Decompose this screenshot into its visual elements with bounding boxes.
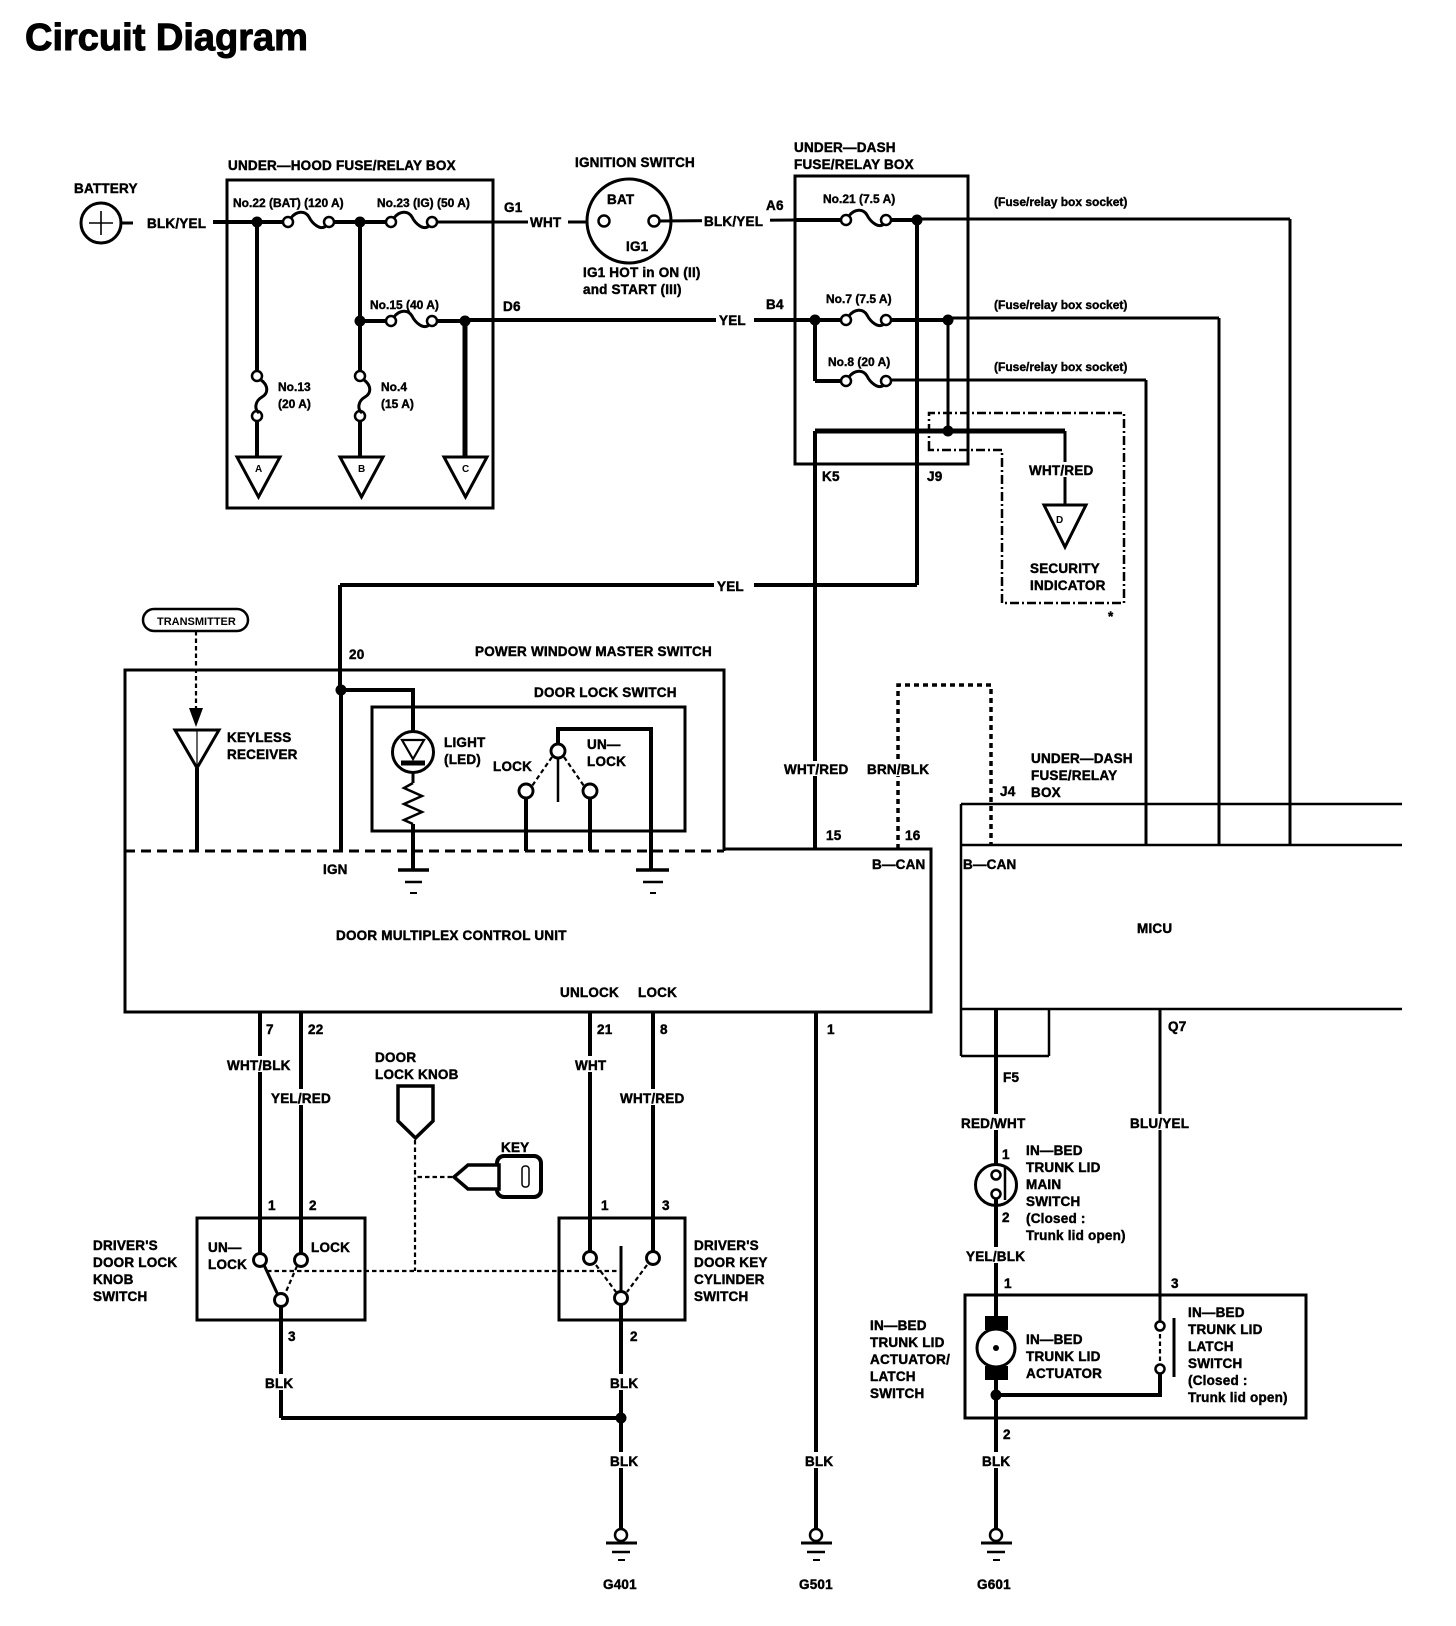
svg-text:1: 1: [1002, 1147, 1010, 1162]
note IG1 HOT: [583, 265, 701, 297]
wire K5 header: [815, 431, 1065, 484]
contact LOCK: [493, 757, 552, 851]
dashed mechanical link: [267, 1270, 618, 1272]
in-bed trunk lid actuator/latch switch box: [870, 1295, 1306, 1418]
svg-text:B—CAN: B—CAN: [872, 857, 926, 872]
svg-text:No.7 (7.5 A): No.7 (7.5 A): [826, 292, 892, 306]
under-hood fuse/relay box: [227, 180, 493, 508]
connector D security indicator: [1030, 505, 1114, 624]
svg-text:IGNITION SWITCH: IGNITION SWITCH: [575, 155, 695, 170]
svg-text:SWITCH: SWITCH: [1188, 1356, 1242, 1371]
svg-text:ACTUATOR: ACTUATOR: [1026, 1366, 1102, 1381]
svg-text:15: 15: [826, 828, 842, 843]
svg-text:LATCH: LATCH: [870, 1369, 916, 1384]
node bus B: [355, 217, 366, 228]
wire to LED: [341, 690, 413, 742]
door lock switch common contact: [551, 729, 651, 869]
svg-text:D: D: [1056, 515, 1063, 526]
connector B: [340, 421, 383, 497]
svg-text:No.13: No.13: [278, 380, 311, 394]
label in-bed trunk lid main switch: [1026, 1143, 1126, 1243]
svg-text:POWER WINDOW MASTER SWITCH: POWER WINDOW MASTER SWITCH: [475, 644, 712, 659]
svg-text:IN—BED: IN—BED: [870, 1318, 927, 1333]
pin 21 wire WHT: [573, 1012, 613, 1252]
svg-text:TRUNK LID: TRUNK LID: [1026, 1349, 1101, 1364]
svg-text:TRUNK LID: TRUNK LID: [870, 1335, 945, 1350]
svg-text:UNLOCK: UNLOCK: [560, 985, 619, 1000]
knob switch pin 3 BLK: [263, 1306, 296, 1418]
svg-text:MICU: MICU: [1137, 921, 1172, 936]
pin 1 wire BLK to G501: [803, 1012, 835, 1529]
svg-text:BLK: BLK: [610, 1454, 638, 1469]
svg-text:SWITCH: SWITCH: [694, 1289, 748, 1304]
wire J9 vertical: [917, 220, 942, 585]
svg-text:BAT: BAT: [607, 192, 635, 207]
svg-text:Trunk lid open): Trunk lid open): [1188, 1390, 1288, 1405]
wire fuse22 to fuse23: [334, 220, 391, 224]
svg-text:BLK: BLK: [805, 1454, 833, 1469]
node row2: [355, 316, 366, 327]
svg-text:YEL/BLK: YEL/BLK: [966, 1249, 1025, 1264]
svg-text:B—CAN: B—CAN: [963, 857, 1017, 872]
ground LED: [398, 870, 429, 893]
wire fuse7 socket: [948, 298, 1219, 318]
svg-text:SECURITY: SECURITY: [1030, 561, 1100, 576]
node J9 top: [891, 215, 923, 226]
pin 7 wire WHT/BLK: [225, 1012, 291, 1254]
svg-text:LOCK: LOCK: [587, 754, 626, 769]
wire No.7 drop: [943, 320, 954, 437]
wire fuse8 socket: [891, 360, 1146, 380]
svg-text:TRUNK LID: TRUNK LID: [1026, 1160, 1101, 1175]
svg-text:1: 1: [601, 1198, 609, 1213]
resistor in door lock switch: [404, 772, 422, 869]
wire ignition to A6 BLK/YEL: [660, 198, 795, 229]
LED light: [393, 732, 487, 773]
svg-text:BRN/BLK: BRN/BLK: [867, 762, 929, 777]
svg-text:IGN: IGN: [323, 862, 348, 877]
node No.7 out: [891, 315, 954, 326]
key cylinder pin 2 BLK: [608, 1305, 640, 1529]
svg-text:DRIVER'S: DRIVER'S: [93, 1238, 158, 1253]
svg-text:Trunk lid open): Trunk lid open): [1026, 1228, 1126, 1243]
knob switch contacts: [208, 1198, 350, 1307]
svg-text:Q7: Q7: [1168, 1019, 1186, 1034]
svg-text:UN—: UN—: [208, 1240, 242, 1255]
pin 22 wire YEL/RED: [269, 1012, 333, 1254]
connector C: [444, 321, 487, 497]
ignition switch: [575, 155, 695, 263]
svg-text:2: 2: [1003, 1427, 1011, 1442]
svg-text:3: 3: [1171, 1276, 1179, 1291]
svg-text:SWITCH: SWITCH: [870, 1386, 924, 1401]
wire YEL ignition feed to master switch: [340, 577, 917, 690]
svg-text:DRIVER'S: DRIVER'S: [694, 1238, 759, 1253]
svg-text:G601: G601: [977, 1577, 1011, 1592]
svg-text:3: 3: [662, 1198, 670, 1213]
svg-text:WHT: WHT: [575, 1058, 607, 1073]
in-bed trunk lid latch switch: [1156, 1276, 1180, 1377]
svg-text:BOX: BOX: [1031, 785, 1061, 800]
pin 20 IGN wire: [323, 647, 364, 877]
svg-text:1: 1: [1004, 1276, 1012, 1291]
wire G1 to ignition switch: [437, 200, 598, 230]
svg-text:YEL: YEL: [717, 579, 744, 594]
wire F5 RED/WHT: [959, 1009, 1027, 1165]
svg-text:UNDER—DASH: UNDER—DASH: [1031, 751, 1133, 766]
wire branch to fuse No.8: [813, 320, 817, 381]
svg-text:DOOR MULTIPLEX CONTROL UNIT: DOOR MULTIPLEX CONTROL UNIT: [336, 928, 567, 943]
ground door lock switch: [636, 870, 669, 893]
wire fuse21 socket: [917, 195, 1290, 219]
dashed knob link: [414, 1140, 416, 1271]
wire pin 2 BLK to G601: [980, 1418, 1012, 1529]
svg-text:K5: K5: [822, 469, 840, 484]
svg-text:B: B: [358, 464, 365, 475]
pin 16 BRN/BLK dashed B-CAN: [866, 685, 991, 849]
svg-text:INDICATOR: INDICATOR: [1030, 578, 1106, 593]
fuse No.15 (40 A): [360, 298, 439, 327]
ground G601: [977, 1529, 1012, 1592]
svg-text:J4: J4: [1000, 784, 1016, 799]
svg-text:LOCK: LOCK: [311, 1240, 350, 1255]
fuse No.8 (20 A): [815, 355, 891, 387]
svg-text:IN—BED: IN—BED: [1026, 1332, 1083, 1347]
under-dash fuse/relay box (lower right): [961, 751, 1402, 1056]
svg-text:IN—BED: IN—BED: [1026, 1143, 1083, 1158]
svg-text:TRUNK LID: TRUNK LID: [1188, 1322, 1263, 1337]
contact UN-LOCK: [564, 737, 626, 851]
dashed key link: [416, 1176, 452, 1178]
svg-text:WHT/RED: WHT/RED: [620, 1091, 684, 1106]
svg-text:No.4: No.4: [381, 380, 407, 394]
svg-text:22: 22: [308, 1022, 323, 1037]
svg-text:BLK: BLK: [982, 1454, 1010, 1469]
svg-text:LATCH: LATCH: [1188, 1339, 1234, 1354]
svg-text:LOCK: LOCK: [638, 985, 677, 1000]
svg-text:BLU/YEL: BLU/YEL: [1130, 1116, 1189, 1131]
svg-text:DOOR LOCK SWITCH: DOOR LOCK SWITCH: [534, 685, 677, 700]
svg-text:(Fuse/relay box socket): (Fuse/relay box socket): [994, 298, 1127, 312]
wire latch to actuator junction: [991, 1373, 1161, 1418]
svg-text:(15 A): (15 A): [381, 397, 414, 411]
svg-text:2: 2: [630, 1329, 638, 1344]
svg-text:UNDER—HOOD FUSE/RELAY BOX: UNDER—HOOD FUSE/RELAY BOX: [228, 158, 456, 173]
svg-text:CYLINDER: CYLINDER: [694, 1272, 765, 1287]
svg-text:LOCK: LOCK: [493, 759, 532, 774]
pin 8 wire WHT/RED: [618, 1012, 686, 1252]
svg-text:2: 2: [1002, 1210, 1010, 1225]
svg-text:No.23 (IG) (50 A): No.23 (IG) (50 A): [377, 196, 470, 210]
wire K5 vertical WHT/RED: [783, 431, 848, 849]
wire D6 YEL to under-dash box: [437, 299, 795, 328]
svg-text:G1: G1: [504, 200, 523, 215]
svg-text:BLK: BLK: [610, 1376, 638, 1391]
svg-text:(20 A): (20 A): [278, 397, 311, 411]
svg-text:J9: J9: [927, 469, 942, 484]
svg-text:LOCK: LOCK: [208, 1257, 247, 1272]
svg-text:ACTUATOR/: ACTUATOR/: [870, 1352, 950, 1367]
svg-text:UNDER—DASH: UNDER—DASH: [794, 140, 896, 155]
wire No.15 feed: [358, 222, 362, 321]
svg-text:No.8 (20 A): No.8 (20 A): [828, 355, 890, 369]
svg-text:(Fuse/relay box socket): (Fuse/relay box socket): [994, 195, 1127, 209]
signal arrowhead: [189, 708, 203, 727]
wire socket2 vertical: [1218, 318, 1221, 845]
svg-text:No.22 (BAT) (120 A): No.22 (BAT) (120 A): [233, 196, 344, 210]
svg-text:SWITCH: SWITCH: [93, 1289, 147, 1304]
label in-bed trunk lid latch switch: [1188, 1305, 1288, 1405]
svg-text:(Closed :: (Closed :: [1026, 1211, 1086, 1226]
svg-text:YEL/RED: YEL/RED: [271, 1091, 331, 1106]
door lock switch box: [372, 685, 685, 831]
svg-text:IG1: IG1: [626, 239, 649, 254]
svg-text:20: 20: [349, 647, 364, 662]
svg-text:BATTERY: BATTERY: [74, 181, 138, 196]
fuse No.21 (7.5 A): [795, 192, 895, 226]
svg-text:BLK/YEL: BLK/YEL: [147, 216, 206, 231]
svg-text:KEY: KEY: [501, 1140, 529, 1155]
svg-text:MAIN: MAIN: [1026, 1177, 1061, 1192]
svg-text:(LED): (LED): [444, 752, 481, 767]
svg-text:D6: D6: [503, 299, 521, 314]
svg-text:WHT/RED: WHT/RED: [1029, 463, 1093, 478]
svg-text:FUSE/RELAY: FUSE/RELAY: [1031, 768, 1117, 783]
svg-text:DOOR KEY: DOOR KEY: [694, 1255, 768, 1270]
wire to security indicator WHT/RED: [1028, 431, 1098, 517]
node row2 out: [460, 316, 471, 327]
svg-text:WHT: WHT: [530, 215, 562, 230]
wire BLK join: [281, 1413, 627, 1424]
power window master switch box: [125, 644, 724, 851]
svg-text:RECEIVER: RECEIVER: [227, 747, 298, 762]
svg-text:*: *: [1108, 609, 1114, 624]
svg-text:BLK/YEL: BLK/YEL: [704, 214, 763, 229]
svg-text:G401: G401: [603, 1577, 637, 1592]
wire socket1 vertical: [1289, 219, 1292, 845]
svg-text:8: 8: [660, 1022, 668, 1037]
fuse No.22 (BAT) (120 A): [233, 196, 344, 228]
svg-text:1: 1: [268, 1198, 276, 1213]
svg-text:B4: B4: [766, 297, 784, 312]
fuse No.23 (IG) (50 A): [377, 196, 470, 228]
svg-text:and START (III): and START (III): [583, 282, 682, 297]
in-bed trunk lid actuator motor: [977, 1316, 1102, 1381]
ground G501: [799, 1529, 833, 1592]
connector A: [237, 421, 280, 497]
key cylinder contacts: [584, 1198, 671, 1305]
svg-text:F5: F5: [1003, 1070, 1019, 1085]
wire YEL/BLK: [964, 1199, 1026, 1320]
svg-text:16: 16: [905, 828, 921, 843]
svg-text:YEL: YEL: [719, 313, 746, 328]
under-dash fuse/relay box (upper): [794, 140, 968, 464]
svg-text:G501: G501: [799, 1577, 833, 1592]
svg-text:WHT/RED: WHT/RED: [784, 762, 848, 777]
svg-text:3: 3: [288, 1329, 296, 1344]
svg-text:(Fuse/relay box socket): (Fuse/relay box socket): [994, 360, 1127, 374]
driver's door lock knob switch box: [93, 1218, 365, 1320]
svg-text:DOOR: DOOR: [375, 1050, 416, 1065]
svg-text:1: 1: [827, 1022, 835, 1037]
door lock knob: [375, 1050, 459, 1138]
svg-text:LOCK KNOB: LOCK KNOB: [375, 1067, 459, 1082]
wire Q7 BLU/YEL: [1128, 1009, 1192, 1322]
svg-text:IG1 HOT in ON (II): IG1 HOT in ON (II): [583, 265, 701, 280]
svg-text:KEYLESS: KEYLESS: [227, 730, 291, 745]
svg-text:A: A: [255, 464, 262, 475]
svg-text:2: 2: [309, 1198, 317, 1213]
svg-text:IN—BED: IN—BED: [1188, 1305, 1245, 1320]
in-bed trunk lid main switch: [976, 1147, 1017, 1225]
svg-text:RED/WHT: RED/WHT: [961, 1116, 1026, 1131]
svg-text:(Closed :: (Closed :: [1188, 1373, 1248, 1388]
fuse No.4 (15 A): [355, 321, 414, 421]
svg-text:WHT/BLK: WHT/BLK: [227, 1058, 291, 1073]
fuse No.7 (7.5 A): [826, 292, 892, 326]
svg-text:7: 7: [266, 1022, 274, 1037]
keyless receiver antenna: [175, 730, 298, 851]
svg-text:A6: A6: [766, 198, 784, 213]
node bus A (junction under-hood): [252, 217, 263, 228]
wire transmitter dashed signal: [195, 631, 197, 708]
svg-text:BLK: BLK: [265, 1376, 293, 1391]
driver's door key cylinder switch box: [559, 1218, 768, 1320]
door multiplex control unit: [125, 849, 931, 1012]
transmitter: [143, 609, 248, 631]
svg-text:FUSE/RELAY BOX: FUSE/RELAY BOX: [794, 157, 914, 172]
svg-text:C: C: [462, 464, 469, 475]
fuse No.13 (20 A): [252, 222, 311, 421]
svg-text:SWITCH: SWITCH: [1026, 1194, 1080, 1209]
svg-text:Circuit Diagram: Circuit Diagram: [25, 17, 308, 59]
battery: [81, 203, 133, 243]
svg-text:21: 21: [597, 1022, 613, 1037]
svg-text:KNOB: KNOB: [93, 1272, 134, 1287]
svg-text:DOOR LOCK: DOOR LOCK: [93, 1255, 177, 1270]
security indicator dash-dot enclosure: [929, 413, 1124, 603]
svg-text:TRANSMITTER: TRANSMITTER: [157, 616, 236, 628]
key: [454, 1140, 541, 1197]
svg-text:No.21 (7.5 A): No.21 (7.5 A): [823, 192, 895, 206]
MICU: [961, 845, 1402, 1009]
svg-text:LIGHT: LIGHT: [444, 735, 486, 750]
svg-text:UN—: UN—: [587, 737, 621, 752]
ground G401: [603, 1529, 637, 1592]
wire socket3 vertical: [1145, 380, 1148, 845]
wire B4 YEL input: [766, 297, 846, 326]
